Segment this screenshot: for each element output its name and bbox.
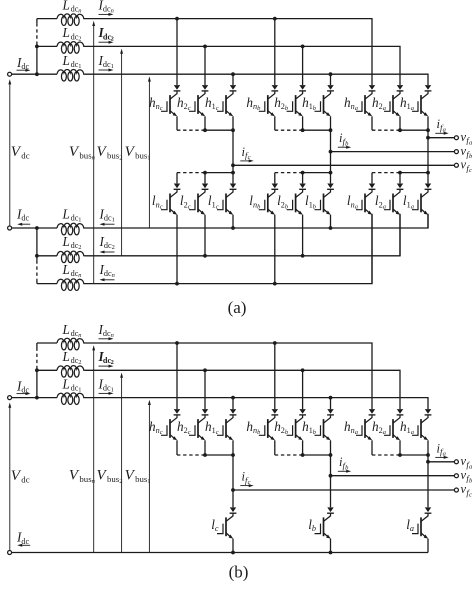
switch l_na: series diode + IGBT (a) <box>356 184 375 215</box>
wire: h emitter bus c solid part (b) <box>205 454 233 456</box>
svg-text:bus: bus <box>107 151 120 161</box>
svg-text:1: 1 <box>147 155 150 162</box>
junction: phase c vertical / l bus (a) <box>231 171 235 175</box>
wire: drop rail 2 to h_2c (b) <box>204 370 206 409</box>
label V_bus2 (b) <box>97 468 123 485</box>
label L_dcn (a) <box>62 0 82 15</box>
junction: rail 2 / h_2b drop (a) <box>301 45 305 49</box>
svg-text:V: V <box>97 468 108 484</box>
svg-text:1: 1 <box>112 216 115 223</box>
node: phase c output junction (b) <box>231 488 235 492</box>
svg-text:bus: bus <box>79 474 92 484</box>
svg-text:V: V <box>69 468 80 484</box>
junction: bottom rail / l_b (b) <box>329 551 333 555</box>
wire: l collector bus a dashed part (a) <box>372 172 400 174</box>
junction: h bus b / h_2b (b) <box>301 453 305 457</box>
switch l_1b: series diode + IGBT (a) <box>315 184 334 215</box>
svg-text:c: c <box>160 203 163 210</box>
svg-text:L: L <box>62 206 70 221</box>
wire: h emitter bus b solid part (b) <box>303 454 331 456</box>
svg-text:bus: bus <box>79 151 92 161</box>
wire: h_1a emitter lead (b) <box>427 440 429 455</box>
svg-text:b: b <box>257 203 260 210</box>
svg-text:b: b <box>257 105 260 112</box>
svg-text:c: c <box>160 429 163 436</box>
svg-text:b: b <box>469 153 473 160</box>
current arrow I_dc1 (a) <box>99 69 114 72</box>
label l_a (b) <box>406 517 414 533</box>
switch l_2b: series diode + IGBT (a) <box>287 184 306 215</box>
junction: bottom feeder / rail1 (a) <box>35 226 39 230</box>
svg-text:L: L <box>62 376 70 391</box>
wire: output line v_fa (a) <box>428 137 455 139</box>
current arrow I_dc2 (a) <box>99 41 114 44</box>
wire: output line v_fb (b) <box>331 475 455 477</box>
junction: bottom rail n / l_nb (a) <box>273 282 277 286</box>
current arrow i_fa (b) <box>435 456 448 459</box>
current arrow i_fa (a) <box>435 132 448 135</box>
switch h_na: series diode + IGBT (b) <box>356 409 375 440</box>
wire: h emitter bus c solid part (a) <box>205 129 233 131</box>
voltage arrow V_bus1 (b) <box>148 400 151 553</box>
wire: top rail 1 to phase-a corner (a) <box>85 74 428 85</box>
svg-text:dc: dc <box>21 151 29 161</box>
wire: top rail n to phase-a corner (a) <box>85 19 372 85</box>
svg-text:1: 1 <box>78 387 81 394</box>
label I_dc top-left (b) <box>16 378 29 394</box>
label L_dc1 bottom (a) <box>62 206 82 223</box>
label h_1b (b) <box>302 419 316 436</box>
svg-text:a: a <box>383 203 386 210</box>
svg-text:L: L <box>62 0 70 12</box>
current arrow I_dc top-left (b) <box>17 392 31 395</box>
junction: h bus c / h_2c (a) <box>203 128 207 132</box>
voltage arrow V_busn (a) <box>92 21 95 284</box>
switch h_nb: series diode + IGBT (b) <box>259 409 278 440</box>
junction: bottom rail 1 / l_1b (a) <box>329 226 333 230</box>
label h_1a (b) <box>400 419 414 436</box>
svg-text:c: c <box>469 492 472 499</box>
wire: drop rail n to h_nc (b) <box>176 343 178 409</box>
wire: l collector bus c risers (a) <box>177 173 205 184</box>
label L_dcn (b) <box>62 322 82 339</box>
wire: h emitter bus a solid part (b) <box>400 454 428 456</box>
wire: drop rail 1 to h_1c (a) <box>232 74 234 85</box>
wire: phase b vertical hbus->lbus (a) <box>330 130 332 183</box>
label I_dc1 (a) <box>98 53 114 70</box>
label i_fa (a) <box>437 117 446 133</box>
wire: l_nb emitter lead to bottom rail (a) <box>274 215 276 284</box>
junction: h bus a / h_2a (b) <box>398 453 402 457</box>
wire: drop rail 1 to h_1b (a) <box>330 74 332 85</box>
svg-text:V: V <box>125 468 136 484</box>
svg-text:c: c <box>188 429 191 436</box>
junction: bottom feeder / rail2 (a) <box>35 254 39 258</box>
wire: drop rail n to h_nc (a) <box>176 19 178 85</box>
wire: top rail 2 left segment (a) <box>37 45 57 47</box>
wire: l collector bus c dashed part (a) <box>177 172 205 174</box>
junction: rail 2 / h_2b drop (b) <box>301 368 305 372</box>
wire: h_2a emitter lead (b) <box>399 440 401 455</box>
wire: h_1c emitter lead (a) <box>232 116 234 130</box>
wire: bottom rail 1 left segment (a) <box>37 227 57 229</box>
junction: bottom rail 2 / l_2b (a) <box>301 254 305 258</box>
switch h_2c: series diode + IGBT (a) <box>189 85 208 116</box>
label h_2b (b) <box>274 419 288 436</box>
svg-text:n: n <box>111 8 114 15</box>
inductor L_dc2 (b) <box>57 366 85 378</box>
switch h_1a: series diode + IGBT (b) <box>412 409 431 440</box>
label i_fa (b) <box>437 441 446 457</box>
node: phase a output junction (a) <box>426 136 430 140</box>
wire: l collector bus b solid part (a) <box>303 172 331 174</box>
junction: rail n / h_nc drop (b) <box>175 341 179 345</box>
voltage arrow V_bus1 (a) <box>148 76 151 228</box>
wire: h emitter bus b solid part (a) <box>303 129 331 131</box>
junction: bottom rail 2 / l_2c (a) <box>203 254 207 258</box>
svg-text:1: 1 <box>78 216 81 223</box>
switch h_nb: series diode + IGBT (a) <box>259 85 278 116</box>
node: DC return terminal left (b) <box>8 551 12 555</box>
label V_dc (a) <box>11 144 30 160</box>
label l_nc (a) <box>152 193 163 210</box>
wire: phase b vertical to low switch (b) <box>330 455 332 507</box>
wire: feeder vertical lower solid (b) <box>36 366 38 398</box>
current arrow i_fc (a) <box>240 159 253 162</box>
current arrow I_dc2 (b) <box>99 365 114 368</box>
svg-text:2: 2 <box>112 244 115 251</box>
junction: rail 2 / h_2c drop (b) <box>203 368 207 372</box>
switch l_2a: series diode + IGBT (a) <box>384 184 403 215</box>
wire: l_2a emitter lead to bottom rail (a) <box>399 215 401 256</box>
svg-text:2: 2 <box>78 35 81 42</box>
label l_b (b) <box>308 517 316 533</box>
label i_fb (a) <box>339 131 349 147</box>
switch l_nb: series diode + IGBT (a) <box>259 184 278 215</box>
wire: l_na emitter lead to bottom rail (a) <box>371 215 373 284</box>
label h_1c (a) <box>205 95 219 112</box>
junction: phase b vertical / l bus (a) <box>329 171 333 175</box>
junction: h bus c / phase vertical (a) <box>231 128 235 132</box>
label I_dcn bottom (a) <box>99 262 115 279</box>
wire: feeder vertical dashed section (a) <box>36 23 38 42</box>
node: phase b output junction (b) <box>329 474 333 478</box>
inductor L_dcn bottom (a) <box>57 279 85 291</box>
junction: h bus b / phase vertical (b) <box>329 453 333 457</box>
svg-text:dc: dc <box>21 213 29 222</box>
switch l_2c: series diode + IGBT (a) <box>189 184 208 215</box>
wire: l collector bus a solid part (a) <box>400 172 428 174</box>
switch h_na: series diode + IGBT (a) <box>356 85 375 116</box>
switch l_1a: series diode + IGBT (a) <box>412 184 431 215</box>
svg-text:n: n <box>78 8 81 15</box>
svg-text:n: n <box>78 272 81 279</box>
svg-text:a: a <box>383 429 386 436</box>
label i_fb (b) <box>339 455 349 471</box>
svg-text:a: a <box>411 105 414 112</box>
wire: h emitter bus a dashed part (b) <box>372 454 400 456</box>
wire: drop rail 1 to h_1b (b) <box>330 398 332 409</box>
svg-text:c: c <box>188 105 191 112</box>
junction: h bus c / h_2c (b) <box>203 453 207 457</box>
wire: h_1b emitter lead (a) <box>330 116 332 130</box>
switch l_a: series diode + IGBT (b) <box>412 507 431 538</box>
label v_fc (a) <box>461 158 473 174</box>
label l_na (a) <box>347 193 358 210</box>
junction: h bus a / phase vertical (a) <box>426 128 430 132</box>
wire: h_nb emitter lead (b) <box>274 440 276 455</box>
wire: bottom rail 2 left segment (a) <box>37 255 57 257</box>
label I_dc2 (a) <box>98 25 114 42</box>
switch l_c: series diode + IGBT (b) <box>217 507 236 538</box>
svg-text:b: b <box>313 203 316 210</box>
svg-text:V: V <box>125 144 136 160</box>
wire: bottom rail n to phase-a corner (a) <box>85 214 372 284</box>
current arrow I_dc2 bottom (a) <box>100 251 115 254</box>
svg-text:L: L <box>62 349 70 364</box>
svg-text:b: b <box>257 429 260 436</box>
node: DC input terminal left (b) <box>8 396 12 400</box>
junction: rail 1 / h_1c drop (b) <box>231 396 235 400</box>
label V_busn (b) <box>69 468 96 485</box>
inductor L_dcn (a) <box>57 14 85 26</box>
label l_1a (a) <box>403 193 414 210</box>
current arrow I_dc bottom-left (b) <box>17 544 30 547</box>
wire: bottom feeder solid upper (a) <box>36 228 38 260</box>
label I_dc top-left (a) <box>16 55 29 71</box>
label L_dc1 (a) <box>62 53 82 70</box>
label L_dc2 (b) <box>62 349 82 366</box>
wire: h_1a emitter lead (a) <box>427 116 429 130</box>
wire: output line v_fa (b) <box>428 461 455 463</box>
junction: feeder / rail2 (b) <box>35 368 39 372</box>
current arrow I_dcn (a) <box>99 13 114 16</box>
label I_dcn (b) <box>98 322 114 339</box>
node: phase b output junction (a) <box>329 150 333 154</box>
wire: h emitter bus b dashed part (b) <box>275 454 303 456</box>
svg-text:2: 2 <box>119 478 122 485</box>
label L_dc2 bottom (a) <box>62 234 82 251</box>
label h_nc (a) <box>149 95 163 112</box>
label I_dc2 bottom (a) <box>99 234 115 251</box>
svg-text:c: c <box>469 167 472 174</box>
wire: l_c emitter lead to bottom rail (b) <box>232 539 234 553</box>
switch h_nc: series diode + IGBT (a) <box>161 85 180 116</box>
wire: l_2b emitter lead to bottom rail (a) <box>302 215 304 256</box>
svg-text:b: b <box>313 429 316 436</box>
label l_1b (a) <box>305 193 316 210</box>
switch h_2c: series diode + IGBT (b) <box>189 409 208 440</box>
label h_1b (a) <box>302 95 316 112</box>
svg-text:L: L <box>62 322 70 337</box>
svg-text:c: c <box>188 203 191 210</box>
wire: top rail 2 to phase-a corner (b) <box>85 370 400 409</box>
terminal v_fa (b) <box>454 460 458 464</box>
wire: top rail n to phase-a corner (b) <box>85 343 372 409</box>
label h_2a (b) <box>372 419 386 436</box>
wire: h emitter bus c dashed part (b) <box>177 454 205 456</box>
svg-text:a: a <box>411 203 414 210</box>
wire: feeder vertical lower solid (a) <box>36 42 38 74</box>
label I_dc1 (b) <box>98 376 114 393</box>
wire: l_a emitter lead to bottom rail (b) <box>427 539 429 553</box>
junction: h bus c / phase vertical (b) <box>231 453 235 457</box>
wire: l_b emitter lead to bottom rail (b) <box>330 539 332 553</box>
wire: output line v_fc (b) <box>233 489 455 491</box>
svg-text:dc: dc <box>21 537 29 546</box>
switch l_b: series diode + IGBT (b) <box>315 507 334 538</box>
inductor L_dc1 (b) <box>57 393 85 405</box>
switch h_1a: series diode + IGBT (a) <box>412 85 431 116</box>
node: phase c output junction (a) <box>231 163 235 167</box>
label h_na (b) <box>344 419 358 436</box>
junction: bottom rail / l_c (b) <box>231 551 235 555</box>
wire: feeder vertical upper solid (a) <box>36 19 38 24</box>
svg-text:dc: dc <box>21 474 29 484</box>
wire: l collector bus b risers (a) <box>275 173 303 184</box>
wire: l_1b emitter lead to bottom rail (a) <box>330 215 332 228</box>
wire: bottom terminal to feeder junction (a) <box>12 227 37 229</box>
wire: h_na emitter lead (a) <box>371 116 373 130</box>
wire: bottom rail 1 to phase-a corner (a) <box>85 214 428 228</box>
voltage arrow V_dc (a) <box>8 79 11 226</box>
switch h_nc: series diode + IGBT (b) <box>161 409 180 440</box>
label V_dc (b) <box>11 468 30 484</box>
switch l_1c: series diode + IGBT (a) <box>217 184 236 215</box>
label h_1c (b) <box>205 419 219 436</box>
wire: drop rail n to h_nb (b) <box>274 343 276 409</box>
switch h_1c: series diode + IGBT (b) <box>217 409 236 440</box>
wire: h_2c emitter lead (a) <box>204 116 206 130</box>
svg-text:bus: bus <box>135 474 148 484</box>
svg-text:1: 1 <box>111 63 114 70</box>
label L_dc1 (b) <box>62 376 82 393</box>
current arrow I_dcn bottom (a) <box>100 278 115 281</box>
wire: bottom feeder solid lower (a) <box>36 279 38 284</box>
terminal v_fb (a) <box>454 150 458 154</box>
svg-text:b: b <box>313 105 316 112</box>
switch h_1c: series diode + IGBT (a) <box>217 85 236 116</box>
wire: top rail 2 to phase-a corner (a) <box>85 46 400 85</box>
wire: l collector bus c solid part (a) <box>205 172 233 174</box>
wire: phase c vertical hbus->lbus (a) <box>232 130 234 183</box>
wire: drop rail 2 to h_2c (a) <box>204 46 206 85</box>
svg-text:b: b <box>285 203 288 210</box>
wire: h emitter bus c dashed part (a) <box>177 129 205 131</box>
svg-text:2: 2 <box>111 35 114 42</box>
label V_bus1 (a) <box>125 144 151 161</box>
label I_dcn (a) <box>98 0 114 15</box>
wire: feeder vertical dashed section (b) <box>36 348 38 366</box>
wire: l collector bus b dashed part (a) <box>275 172 303 174</box>
svg-text:n: n <box>112 272 115 279</box>
wire: feeder vertical upper solid (b) <box>36 343 38 348</box>
svg-text:n: n <box>111 332 114 339</box>
wire: h_nc emitter lead (a) <box>176 116 178 130</box>
svg-text:c: c <box>216 429 219 436</box>
wire: h_nc emitter lead (b) <box>176 440 178 455</box>
wire: h emitter bus b dashed part (a) <box>275 129 303 131</box>
junction: rail n / h_nc drop (a) <box>175 17 179 21</box>
svg-text:2: 2 <box>78 244 81 251</box>
wire: top rail 2 left segment (b) <box>37 369 57 371</box>
wire: phase c vertical to low switch (b) <box>232 455 234 507</box>
wire: h_2b emitter lead (b) <box>302 440 304 455</box>
wire: bottom feeder dashed section (a) <box>36 260 38 279</box>
switch h_2b: series diode + IGBT (a) <box>287 85 306 116</box>
svg-text:L: L <box>62 234 70 249</box>
svg-text:L: L <box>62 53 70 68</box>
switch h_2b: series diode + IGBT (b) <box>287 409 306 440</box>
label V_busn (a) <box>69 144 96 161</box>
terminal v_fc (a) <box>454 163 458 167</box>
junction: rail 1 / h_1b drop (a) <box>329 72 333 76</box>
voltage arrow V_dc (b) <box>8 403 11 551</box>
label I_dc bottom-left (a) <box>16 206 29 222</box>
label L_dc2 (a) <box>62 25 82 42</box>
svg-text:b: b <box>285 105 288 112</box>
junction: feeder / rail1 (b) <box>35 396 39 400</box>
label l_2b (a) <box>277 193 288 210</box>
voltage arrow V_bus2 (a) <box>120 49 123 256</box>
current arrow I_dcn (b) <box>99 337 114 340</box>
svg-text:a: a <box>355 429 358 436</box>
junction: l bus b / l_2b (a) <box>301 171 305 175</box>
label l_2a (a) <box>375 193 386 210</box>
svg-text:1: 1 <box>147 478 150 485</box>
svg-text:a: a <box>355 105 358 112</box>
node: DC input terminal left (a) <box>8 72 12 76</box>
wire: h_2a emitter lead (a) <box>399 116 401 130</box>
label v_fc (b) <box>461 482 473 498</box>
svg-text:b: b <box>469 477 473 484</box>
label h_nb (b) <box>246 419 260 436</box>
label h_nb (a) <box>246 95 260 112</box>
current arrow I_dc bottom-left (a) <box>17 223 30 226</box>
junction: bottom rail n / l_nc (a) <box>175 282 179 286</box>
junction: h bus a / h_2a (a) <box>398 128 402 132</box>
svg-text:2: 2 <box>78 359 81 366</box>
inductor L_dc1 (a) <box>57 69 85 81</box>
current arrow I_dc1 (b) <box>99 392 114 395</box>
label h_2b (a) <box>274 95 288 112</box>
terminal v_fb (b) <box>454 474 458 478</box>
junction: feeder / rail2 (a) <box>35 45 39 49</box>
svg-text:L: L <box>62 262 70 277</box>
svg-text:(b): (b) <box>229 563 249 582</box>
label h_2c (b) <box>177 419 191 436</box>
terminal v_fa (a) <box>454 136 458 140</box>
node: phase a output junction (b) <box>426 460 430 464</box>
label I_dc1 bottom (a) <box>99 206 115 223</box>
svg-text:1: 1 <box>111 387 114 394</box>
svg-text:c: c <box>216 203 219 210</box>
junction: phase a vertical / l bus (a) <box>426 171 430 175</box>
inductor L_dc2 bottom (a) <box>57 251 85 263</box>
wire: terminal to feeder junction (b) <box>12 397 37 399</box>
node: DC return terminal left (a) <box>8 226 12 230</box>
wire: output line v_fc (a) <box>233 164 455 166</box>
wire: drop rail 1 to h_1c (b) <box>232 398 234 409</box>
voltage arrow V_busn (b) <box>92 345 95 552</box>
label h_2a (a) <box>372 95 386 112</box>
label h_nc (b) <box>149 419 163 436</box>
wire: h_1b emitter lead (b) <box>330 440 332 455</box>
wire: drop rail 2 to h_2b (a) <box>302 46 304 85</box>
svg-text:V: V <box>11 144 22 160</box>
svg-text:c: c <box>160 105 163 112</box>
inductor L_dcn (b) <box>57 338 85 350</box>
